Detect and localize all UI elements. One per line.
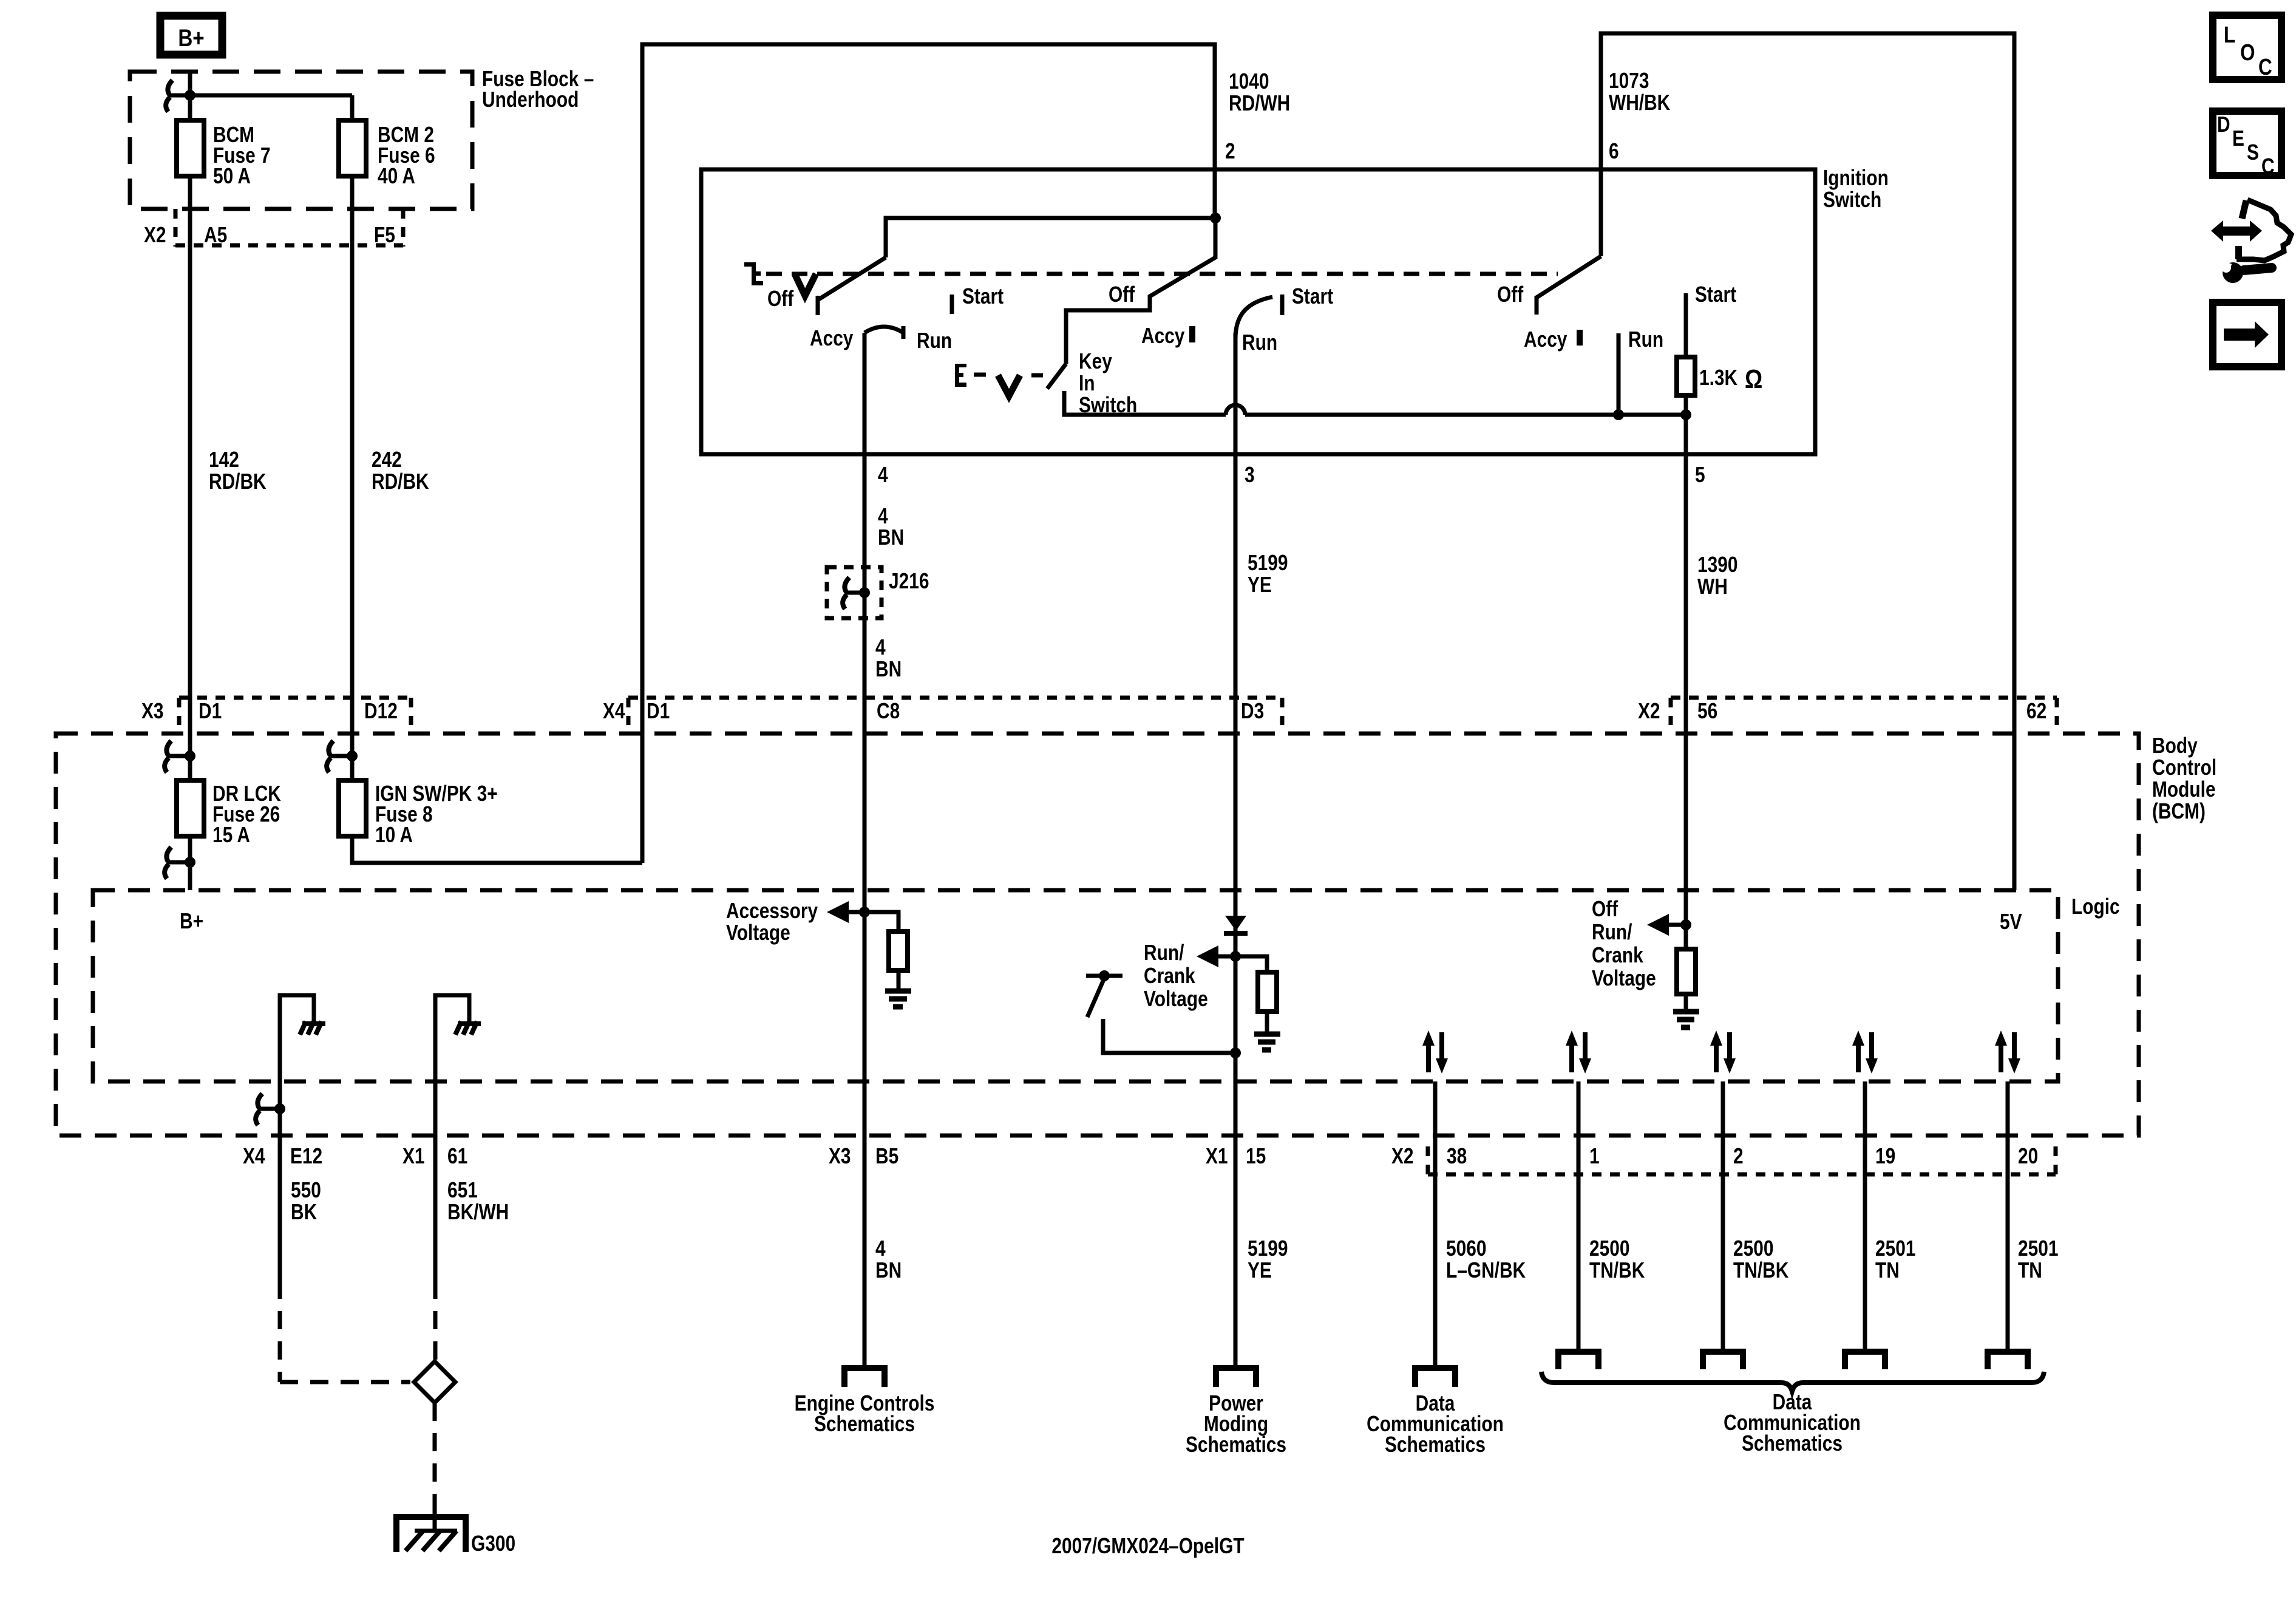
fuse F6: BCM 2 Fuse 6 40 A xyxy=(339,120,366,176)
svg-text:2501: 2501 xyxy=(1875,1236,1915,1261)
svg-text:WH/BK: WH/BK xyxy=(1609,90,1670,115)
svg-text:5: 5 xyxy=(1695,463,1705,487)
svg-text:Module: Module xyxy=(2152,777,2216,802)
svg-text:62: 62 xyxy=(2026,699,2046,723)
svg-text:Off: Off xyxy=(767,287,794,311)
svg-text:Schematics: Schematics xyxy=(1385,1432,1486,1457)
svg-text:20: 20 xyxy=(2018,1144,2038,1168)
svg-text:TN/BK: TN/BK xyxy=(1589,1258,1645,1282)
svg-text:BN: BN xyxy=(878,525,904,550)
svg-text:651: 651 xyxy=(447,1178,478,1202)
pole 2 feed and Off contact Z-wire xyxy=(1066,218,1215,364)
wire fuse7 to A5 xyxy=(188,176,192,890)
wire 550 BK xyxy=(278,1136,282,1281)
svg-text:2: 2 xyxy=(1225,139,1235,163)
key symbol E (key-in switch) xyxy=(955,364,966,387)
svg-text:YE: YE xyxy=(1248,1258,1272,1282)
SECTION: icons xyxy=(2211,15,2291,367)
svg-text:15 A: 15 A xyxy=(212,823,250,847)
svg-text:C: C xyxy=(2258,54,2272,80)
ignition switch box xyxy=(701,169,1815,454)
svg-text:Ω: Ω xyxy=(1745,364,1762,394)
svg-text:Schematics: Schematics xyxy=(814,1412,915,1436)
svg-text:Accy: Accy xyxy=(1524,327,1567,352)
svg-text:Switch: Switch xyxy=(1823,188,1881,212)
arrows wire 19 xyxy=(1852,1030,1878,1074)
accessory pull-down resistor xyxy=(864,912,898,931)
svg-text:D1: D1 xyxy=(199,699,222,723)
internal switch to run/crank sense xyxy=(1099,970,1110,981)
run/crank pull-down resistor xyxy=(1235,956,1267,972)
svg-text:61: 61 xyxy=(447,1144,467,1168)
svg-text:550: 550 xyxy=(291,1178,321,1202)
wire 2501 pin19 xyxy=(1863,1081,1867,1349)
svg-text:RD/BK: RD/BK xyxy=(209,469,267,494)
off-page connector fork engine controls xyxy=(844,1368,885,1387)
ground G300 xyxy=(396,1517,466,1552)
key V pole 1 xyxy=(795,274,816,296)
svg-text:1073: 1073 xyxy=(1609,69,1649,93)
BCM outer dashed box xyxy=(56,734,2139,1136)
svg-text:15: 15 xyxy=(1246,1144,1266,1168)
svg-text:B+: B+ xyxy=(180,909,203,933)
pole 1 Accy-Run wiper arc xyxy=(864,327,903,333)
svg-text:X1: X1 xyxy=(402,1144,425,1168)
splice J216 dashed box xyxy=(827,567,881,618)
resistor 1.3K in ignition switch xyxy=(1677,357,1695,395)
svg-text:RD/WH: RD/WH xyxy=(1229,91,1290,115)
svg-text:O: O xyxy=(2240,39,2255,65)
arrows wire 2 xyxy=(1710,1030,1736,1074)
svg-text:TN: TN xyxy=(2018,1258,2042,1282)
node 2 junction xyxy=(1210,213,1221,223)
fuse 26 DR LCK 15 A xyxy=(177,780,204,836)
svg-text:G300: G300 xyxy=(471,1531,515,1556)
run/crank voltage arrow xyxy=(1230,951,1241,962)
svg-text:38: 38 xyxy=(1447,1144,1467,1168)
off-page connector fork pin19 xyxy=(1845,1352,1885,1369)
off/run/crank pull-down resistor xyxy=(1684,925,1688,949)
svg-text:TN: TN xyxy=(1875,1258,1900,1282)
svg-text:19: 19 xyxy=(1875,1144,1895,1168)
svg-text:Accessory: Accessory xyxy=(726,899,818,923)
connector X2 row (A5 / F5) xyxy=(174,209,178,247)
svg-text:RD/BK: RD/BK xyxy=(372,469,429,494)
svg-text:D12: D12 xyxy=(364,699,398,723)
svg-text:2501: 2501 xyxy=(2018,1236,2058,1261)
svg-text:BN: BN xyxy=(875,1258,902,1282)
SECTION: bottom xyxy=(243,1136,2058,1559)
svg-text:3: 3 xyxy=(1245,463,1255,487)
svg-text:Accy: Accy xyxy=(810,326,854,350)
connector row X3/X4/X2 small dashed xyxy=(179,696,411,700)
wire 2500 pin1 xyxy=(1577,1081,1581,1349)
fuse block underhood dashed box xyxy=(130,72,472,209)
hop over pin 3 wire xyxy=(1226,405,1245,415)
svg-text:5060: 5060 xyxy=(1446,1236,1486,1261)
svg-text:D: D xyxy=(2217,112,2230,137)
brace data communication xyxy=(1541,1372,2044,1391)
svg-text:5199: 5199 xyxy=(1248,551,1288,575)
signal ground run/crank xyxy=(1254,1034,1280,1050)
svg-text:40 A: 40 A xyxy=(378,164,415,188)
pole 1 switch blade xyxy=(818,257,886,300)
svg-text:X2: X2 xyxy=(1391,1144,1414,1168)
svg-text:X3: X3 xyxy=(829,1144,851,1168)
svg-text:YE: YE xyxy=(1248,573,1272,597)
svg-text:X2: X2 xyxy=(144,223,166,247)
key in switch contact and wire to pin5 rail xyxy=(1064,391,1226,415)
off-page connector fork pin2 xyxy=(1703,1352,1743,1369)
svg-text:4: 4 xyxy=(878,463,888,487)
clip below fuse 26 xyxy=(165,847,171,879)
wire 1073 top rail to 62 xyxy=(1601,33,2014,890)
svg-text:Start: Start xyxy=(1695,282,1736,307)
ground stub 550 inside logic xyxy=(280,995,314,1281)
wire: big loop from fuse 8 up over to ignition pin 2 xyxy=(642,44,1215,863)
pole 3 blade from 1073 xyxy=(1537,256,1601,298)
svg-text:Off: Off xyxy=(1109,282,1135,307)
B+ power feed box xyxy=(160,16,222,55)
svg-text:X1: X1 xyxy=(1206,1144,1228,1168)
svg-text:BK/WH: BK/WH xyxy=(447,1200,509,1224)
svg-text:L–GN/BK: L–GN/BK xyxy=(1446,1258,1526,1282)
svg-text:Ignition: Ignition xyxy=(1823,166,1889,190)
connector clip at B+ node xyxy=(166,80,172,112)
svg-text:Body: Body xyxy=(2152,734,2198,758)
svg-text:Control: Control xyxy=(2152,755,2216,780)
svg-text:WH: WH xyxy=(1697,574,1728,599)
svg-text:D3: D3 xyxy=(1241,699,1264,723)
svg-text:2007/GMX024–OpelGT: 2007/GMX024–OpelGT xyxy=(1051,1534,1244,1558)
svg-text:5V: 5V xyxy=(2000,910,2022,934)
harness icon double arrow xyxy=(2211,220,2262,242)
pole 3 Start contact xyxy=(1684,293,1688,357)
key in switch blade xyxy=(1047,364,1066,389)
node: Run junction xyxy=(1613,409,1624,420)
svg-text:Run: Run xyxy=(1628,327,1663,352)
pin 3 wire down xyxy=(1234,333,1238,1365)
wire 2500 pin2 xyxy=(1721,1081,1725,1349)
arrows wire 38 xyxy=(1422,1030,1448,1074)
svg-text:X2: X2 xyxy=(1638,699,1660,723)
splice diamond xyxy=(414,1361,455,1403)
svg-text:Start: Start xyxy=(962,284,1004,308)
pin 5 wire down xyxy=(1684,415,1688,925)
pole 3 Run contact wire xyxy=(1617,333,1621,415)
harness icon outline xyxy=(2237,200,2291,260)
signal ground accessory xyxy=(885,991,911,1007)
pole 3 Off contact xyxy=(1535,296,1539,315)
DESC icon box xyxy=(2213,111,2281,175)
SECTION: bcm xyxy=(56,504,2216,1365)
pin 4 wire down xyxy=(863,333,867,1365)
svg-text:2: 2 xyxy=(1733,1144,1744,1168)
svg-text:Start: Start xyxy=(1292,284,1333,308)
svg-text:Crank: Crank xyxy=(1592,943,1643,967)
svg-text:A5: A5 xyxy=(204,223,227,247)
svg-text:142: 142 xyxy=(209,448,239,472)
arrow icon box xyxy=(2213,302,2281,367)
svg-text:50 A: 50 A xyxy=(213,164,251,188)
svg-text:Voltage: Voltage xyxy=(1144,987,1208,1011)
chassis ground mini 651 xyxy=(455,1021,481,1035)
ground stub 651 inside logic xyxy=(435,995,469,1281)
svg-text:S: S xyxy=(2247,140,2259,165)
clip on wire 550 xyxy=(256,1094,262,1125)
svg-text:BK: BK xyxy=(291,1200,317,1224)
accessory voltage arrow xyxy=(859,907,870,918)
connector clip on wire 242 xyxy=(327,741,333,772)
connector clip on wire 142 xyxy=(165,741,171,772)
fuse 8 IGN SW/PK 3+ 10 A xyxy=(339,780,366,836)
SECTION: ignition switch xyxy=(701,166,1889,1365)
wire 651 BK/WH xyxy=(433,1136,438,1281)
svg-text:1.3K: 1.3K xyxy=(1699,366,1737,390)
svg-text:E12: E12 xyxy=(290,1144,322,1168)
SECTION: top-left B+ and fuse block xyxy=(130,16,2014,890)
key symbol pole 1 xyxy=(744,262,763,285)
svg-text:Schematics: Schematics xyxy=(1186,1432,1286,1457)
svg-text:BN: BN xyxy=(875,657,902,681)
wire fuse6 to F5 xyxy=(350,176,355,780)
arrows wire 1 xyxy=(1566,1030,1591,1074)
wire B+ down to fuse 7 xyxy=(188,70,192,120)
svg-text:Voltage: Voltage xyxy=(1592,966,1656,990)
svg-text:6: 6 xyxy=(1609,139,1619,163)
pole 1 Off contact xyxy=(816,296,820,315)
svg-text:1040: 1040 xyxy=(1229,69,1269,94)
svg-text:TN/BK: TN/BK xyxy=(1733,1258,1788,1282)
arrows wire 20 xyxy=(1995,1030,2020,1074)
svg-text:1390: 1390 xyxy=(1697,553,1737,577)
svg-text:1: 1 xyxy=(1589,1144,1600,1168)
harness icon wrench xyxy=(2223,262,2243,283)
svg-text:J216: J216 xyxy=(889,569,929,593)
svg-text:X3: X3 xyxy=(141,699,164,723)
data wires up/down arrows xyxy=(1422,1030,2020,1074)
svg-text:B+: B+ xyxy=(178,24,204,52)
svg-text:4: 4 xyxy=(875,635,886,659)
svg-text:5199: 5199 xyxy=(1248,1236,1288,1261)
svg-text:4: 4 xyxy=(875,1236,886,1261)
node: pin5 junction xyxy=(1680,409,1691,420)
rotary dashed line xyxy=(766,272,1558,276)
wire to fuse 6 xyxy=(190,94,352,98)
diode on 5199 xyxy=(1225,916,1246,931)
fuse F7: BCM Fuse 7 50 A xyxy=(177,120,204,176)
svg-text:Underhood: Underhood xyxy=(482,87,579,112)
off-page connector fork pin1 xyxy=(1558,1352,1598,1369)
svg-text:C8: C8 xyxy=(877,699,900,723)
svg-text:F5: F5 xyxy=(374,223,395,247)
svg-text:Off: Off xyxy=(1592,897,1618,921)
svg-text:2500: 2500 xyxy=(1589,1236,1629,1261)
svg-text:Voltage: Voltage xyxy=(726,921,790,945)
svg-text:In: In xyxy=(1079,371,1095,395)
svg-text:Crank: Crank xyxy=(1144,964,1195,988)
wire 2501 pin20 xyxy=(2006,1081,2010,1349)
svg-text:X4: X4 xyxy=(243,1144,265,1168)
svg-text:Key: Key xyxy=(1079,349,1112,373)
harness icon pin bar xyxy=(2242,200,2246,219)
connector X2 dashed row at bottom xyxy=(1426,1146,1430,1174)
svg-text:L: L xyxy=(2224,22,2235,47)
svg-text:D1: D1 xyxy=(647,699,670,723)
svg-text:X4: X4 xyxy=(603,699,625,723)
svg-text:E: E xyxy=(2232,126,2244,151)
svg-text:Off: Off xyxy=(1497,282,1524,307)
svg-text:B5: B5 xyxy=(875,1144,898,1168)
svg-text:Run/: Run/ xyxy=(1592,920,1632,944)
logic inner dashed box xyxy=(93,890,2058,1081)
svg-text:Run: Run xyxy=(917,329,952,353)
signal ground off/run/crank xyxy=(1673,1012,1699,1027)
pole 2 Start arc from pin 3 xyxy=(1235,297,1272,339)
svg-text:C: C xyxy=(2261,154,2275,179)
wire 5060 xyxy=(1433,1081,1438,1365)
pole 1 Start contact xyxy=(950,295,954,314)
svg-text:Logic: Logic xyxy=(2071,894,2120,919)
svg-text:(BCM): (BCM) xyxy=(2152,799,2206,823)
svg-text:56: 56 xyxy=(1697,699,1717,723)
off-page connector fork data comm 38 xyxy=(1415,1368,1455,1387)
svg-text:Accy: Accy xyxy=(1141,324,1185,348)
wire fuse8 down and right to loop xyxy=(352,836,642,863)
LOC icon box xyxy=(2213,15,2281,80)
pole 1 feed wire from node 2 xyxy=(886,218,1215,257)
svg-text:Schematics: Schematics xyxy=(1742,1431,1843,1456)
svg-text:Run: Run xyxy=(1242,330,1277,355)
node: B+ junction xyxy=(185,90,195,101)
svg-text:242: 242 xyxy=(372,448,402,472)
off-page connector fork pin20 xyxy=(1988,1352,2028,1369)
svg-text:10 A: 10 A xyxy=(375,823,413,847)
off-page connector fork power moding xyxy=(1216,1368,1256,1387)
svg-text:Switch: Switch xyxy=(1079,393,1137,417)
svg-text:2500: 2500 xyxy=(1733,1236,1773,1261)
chassis ground mini 550 xyxy=(300,1021,325,1035)
svg-text:Run/: Run/ xyxy=(1144,941,1184,965)
off/run/crank voltage arrow on 1390 xyxy=(1680,919,1691,930)
